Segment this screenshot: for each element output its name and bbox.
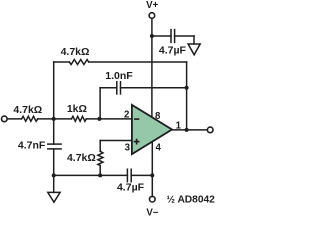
capacitor 4.7nF bottom lead <box>53 149 55 176</box>
wire feedback right vertical <box>186 62 188 130</box>
svg-text:1.0nF: 1.0nF <box>105 70 133 82</box>
resistor 4.7kΩ input <box>22 116 38 121</box>
svg-text:2: 2 <box>124 109 129 120</box>
svg-text:8: 8 <box>155 111 161 122</box>
ground symbol left triangle <box>48 192 60 202</box>
wire pin 4 to V- terminal <box>151 141 153 196</box>
wire pin 3 corner down <box>99 141 101 152</box>
wire node A down to capacitor 4.7nF <box>53 119 55 144</box>
svg-text:1: 1 <box>176 120 182 131</box>
svg-text:V−: V− <box>146 207 158 218</box>
svg-text:4.7kΩ: 4.7kΩ <box>61 46 90 58</box>
junction dot 1.0nF feedback node <box>185 86 189 90</box>
input terminal <box>2 116 8 122</box>
op-amp ½ AD8042 triangle <box>132 105 172 154</box>
capacitor 1.0nF plates <box>116 82 118 94</box>
ground symbol top-right stub <box>193 36 195 44</box>
svg-text:4.7nF: 4.7nF <box>18 140 46 152</box>
ground symbol top-right triangle <box>188 44 200 55</box>
wire input lead <box>7 118 22 120</box>
node B junction dot <box>97 117 101 121</box>
capacitor 4.7µF bottom right lead <box>131 174 152 176</box>
op-amp minus sign <box>134 118 139 120</box>
junction dot output node <box>185 128 189 132</box>
wire feedback row right <box>89 61 187 63</box>
wire feedback row left <box>54 61 70 63</box>
resistor 4.7kΩ bias vertical <box>98 151 103 165</box>
capacitor 4.7µF bottom plates <box>126 169 128 182</box>
V- terminal <box>150 196 156 202</box>
output terminal <box>207 127 213 133</box>
wire output row <box>172 129 207 131</box>
capacitor 4.7µF top right lead <box>175 35 194 37</box>
svg-text:4.7µF: 4.7µF <box>117 182 145 194</box>
wire R-input to R-1k through node A <box>38 118 72 120</box>
capacitor 1.0nF right lead <box>121 87 187 89</box>
wire pin 3 horizontal <box>100 140 132 142</box>
wire 1k to op-amp pin 2 through node B <box>86 118 132 120</box>
svg-text:4.7kΩ: 4.7kΩ <box>13 104 42 116</box>
capacitor 4.7µF top plates <box>170 30 172 43</box>
resistor 1kΩ <box>72 116 87 121</box>
wire V+ down to pin 8 <box>151 18 153 117</box>
junction dot V- node <box>150 173 154 177</box>
capacitor 4.7µF top left lead <box>152 35 171 37</box>
wire bias resistor to ground row <box>99 166 101 176</box>
node A junction dot <box>52 117 56 121</box>
capacitor 1.0nF left lead <box>100 87 117 89</box>
resistor 4.7kΩ feedback <box>69 60 88 65</box>
svg-text:4.7kΩ: 4.7kΩ <box>67 152 96 164</box>
svg-text:4.7µF: 4.7µF <box>159 44 187 56</box>
svg-text:3: 3 <box>125 143 131 154</box>
junction dot ground row left <box>52 173 56 177</box>
V+ terminal <box>149 13 155 19</box>
svg-text:½ AD8042: ½ AD8042 <box>167 195 216 206</box>
ground symbol left stub <box>53 175 55 192</box>
wire node B up to 1.0nF row <box>99 88 101 119</box>
op-amp plus sign <box>134 141 140 143</box>
svg-text:1kΩ: 1kΩ <box>67 103 87 115</box>
capacitor 4.7nF plates <box>48 143 61 145</box>
junction dot V+ node <box>150 34 154 38</box>
svg-text:V+: V+ <box>146 0 158 11</box>
svg-text:4: 4 <box>156 142 162 153</box>
wire ground row <box>54 174 128 176</box>
junction dot ground row right <box>98 173 102 177</box>
wire node A up to feedback row <box>53 62 55 119</box>
